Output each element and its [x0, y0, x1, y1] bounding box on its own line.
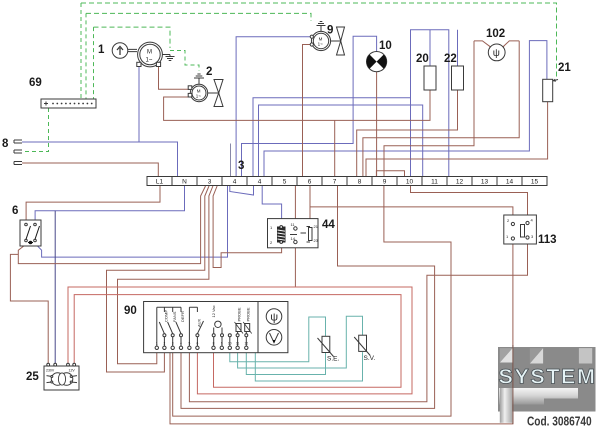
svg-text:8: 8 — [213, 342, 215, 346]
transformer 25 — [44, 363, 79, 390]
svg-text:25: 25 — [26, 371, 39, 383]
resistor 21 — [543, 79, 553, 101]
svg-text:N: N — [182, 179, 187, 186]
wire blue motor1 left terminal down to N run — [138, 67, 140, 143]
motor M1 terminals — [137, 62, 161, 66]
terminal strip 3 — [147, 177, 547, 186]
svg-text:PROBE: PROBE — [245, 307, 250, 321]
wire blue strip 4a second drop — [230, 144, 232, 177]
wire brown strip 7 loop to board90 terminal 4 — [181, 186, 435, 408]
pump flow indicator circle with arrow — [112, 43, 128, 59]
svg-text:12 Vac: 12 Vac — [211, 305, 216, 317]
resistor 21 side pin arrow — [553, 80, 558, 81]
wire brown motor1 right terminal to motor2 upper terminal — [159, 67, 190, 90]
wire navy transformer primary pin2 to N run — [54, 211, 56, 364]
probe 102 — [488, 44, 505, 61]
svg-text:12: 12 — [245, 342, 249, 346]
svg-text:DEFR: DEFR — [180, 311, 185, 322]
wire red transformer secondary to board90 terminal 7 — [74, 295, 401, 388]
svg-text:6: 6 — [12, 205, 18, 217]
svg-text:ψ: ψ — [270, 312, 278, 324]
svg-text:44: 44 — [322, 219, 335, 231]
wire brown strip L1 below to switch 6 — [26, 186, 160, 220]
wire earth green top bus 1 — [81, 3, 557, 79]
wire teal board90 terminal 9 to sensor SE top — [230, 317, 326, 362]
motor M9 terminals — [310, 35, 313, 46]
svg-text:1~: 1~ — [146, 58, 153, 64]
board 90 aux contact — [189, 307, 203, 346]
wire brown motor9 lower terminal down to strip 6 — [303, 45, 311, 177]
svg-text:6: 6 — [308, 179, 312, 186]
wire blue switch6 output to strip 4a — [38, 186, 228, 257]
wire brown motor2 lower terminal to resistor20 bottom — [164, 90, 430, 120]
motor M1 — [138, 42, 163, 67]
svg-text:21: 21 — [314, 224, 319, 229]
svg-text:9: 9 — [221, 342, 223, 346]
svg-text:ψ: ψ — [493, 48, 500, 59]
ground of motor 2 — [194, 74, 204, 84]
wire earth green drop 3 into connector 69 — [93, 27, 95, 99]
svg-text:5: 5 — [189, 342, 191, 346]
svg-text:90: 90 — [124, 305, 137, 317]
motor M2 — [190, 84, 207, 101]
svg-text:AUX: AUX — [197, 318, 202, 327]
wire brown probe102 right lead down and left to strip 9 — [363, 41, 519, 177]
wire blue strip 4b to resistor 21 top — [264, 41, 547, 177]
wire brown strip 8 loop to board90 terminal 3 — [173, 186, 451, 416]
wire teal board90 terminal 10 to sensor SV top — [238, 316, 363, 368]
wire blue strip 4b second run to cell 11 — [259, 105, 423, 177]
svg-text:1: 1 — [98, 44, 105, 56]
lamp 10 — [367, 52, 387, 72]
wire brown strip 10 over to plug113 pin4 — [411, 186, 528, 221]
wire blue plug8 top pin to strip N — [22, 142, 178, 177]
wire brown plug8 bottom pin to strip L1 — [22, 163, 158, 177]
board 90 vertical labels — [164, 305, 251, 327]
svg-text:4: 4 — [233, 179, 237, 186]
svg-text:FANS: FANS — [172, 311, 177, 322]
wire brown plug113 pin3 loop to board90 terminal 5 — [189, 240, 527, 402]
svg-text:4: 4 — [180, 342, 182, 346]
ground of motor 9 — [317, 22, 326, 32]
svg-text:7: 7 — [333, 179, 337, 186]
wire brown relay44 coil pin2 to strip 3 — [213, 186, 282, 268]
wire blue resistor20 top stub — [429, 30, 431, 66]
board 90 relay contacts comp fans defr — [157, 307, 247, 346]
svg-text:6: 6 — [197, 342, 199, 346]
board 90 psi circle — [266, 309, 282, 325]
resistor 20 — [424, 66, 436, 90]
svg-text:102: 102 — [486, 28, 505, 40]
svg-text:13: 13 — [481, 179, 489, 186]
board 90 — [144, 302, 288, 353]
wire brown switch6 branch to transformer primary pin1 — [10, 254, 48, 363]
svg-text:12: 12 — [456, 179, 464, 186]
svg-text:4: 4 — [258, 179, 262, 186]
board 90 V circle — [266, 330, 282, 346]
svg-text:15: 15 — [531, 179, 539, 186]
svg-text:14: 14 — [506, 179, 514, 186]
svg-text:69: 69 — [29, 77, 42, 89]
wire blue strip 4b below to relay44 coil pin1 — [262, 186, 281, 222]
wire brown drop from fan run to strip 7 — [334, 120, 336, 176]
svg-text:M: M — [147, 50, 152, 56]
svg-text:5: 5 — [283, 179, 287, 186]
wire brown relay44 pin14 down — [294, 248, 296, 287]
wire brown plug113 pin1 long bottom run to board90 — [170, 240, 513, 424]
motor M9 — [311, 31, 330, 50]
wire blue jumper terminals 4-4 below strip — [230, 186, 254, 195]
svg-text:3: 3 — [208, 179, 212, 186]
wire earth green drop 2 into connector 69 — [85, 13, 87, 99]
wire earth green top bus 2 to motor 9 ground — [86, 13, 311, 21]
wire teal sensor SE bottom to board90 terminal 11 — [246, 350, 325, 375]
wire brown overlay plug113 pin1 crossing logo — [512, 345, 514, 424]
wire brown resistor22 bottom to strip 8 — [357, 90, 458, 177]
svg-text:COMP: COMP — [164, 310, 169, 322]
switch 6 — [20, 220, 41, 246]
wire brown resistor21 bottom to strip 8 — [366, 102, 548, 177]
wire blue resistor22 top stub — [457, 30, 459, 66]
wire brown strip 3 to board90 terminal 2 — [118, 186, 213, 364]
SYSTEM watermark logo — [498, 347, 597, 429]
plug 113 — [504, 215, 537, 244]
wire brown jumper strip 9 to strip 10 — [376, 171, 404, 177]
wire earth green drop 1 into connector 69 — [80, 3, 82, 99]
wire blue bridge over resistors 20 22 — [411, 30, 449, 177]
svg-text:230V: 230V — [46, 369, 55, 373]
svg-text:3: 3 — [238, 160, 244, 172]
svg-text:10: 10 — [379, 40, 392, 52]
svg-text:20: 20 — [416, 53, 429, 65]
wire brown strip 3 to board90 terminal 1 — [107, 186, 210, 372]
wire earth green connector 69 to plug 8 middle pin — [22, 108, 49, 152]
probe 102 leads — [474, 41, 519, 47]
svg-text:PROBE: PROBE — [237, 307, 242, 321]
svg-text:2: 2 — [164, 342, 166, 346]
wire blue strip 4b up and over to resistor drop — [253, 98, 411, 177]
sensor SE — [318, 336, 340, 362]
svg-text:Cod. 3086740: Cod. 3086740 — [527, 414, 592, 428]
wire brown strip 5 down to relay44 pin11 — [294, 186, 296, 226]
shaft between pump and motor 1 — [128, 49, 137, 51]
svg-text:S.E.: S.E. — [327, 356, 339, 363]
wire brown probe102 left lead down and left to strip 9 — [384, 41, 474, 177]
svg-text:8: 8 — [2, 138, 9, 150]
wire blue strip N down to switch 6 — [35, 186, 184, 220]
svg-text:11: 11 — [236, 342, 240, 346]
svg-text:21: 21 — [558, 62, 571, 74]
svg-text:1: 1 — [156, 342, 158, 346]
fan blades of motor 2 — [208, 80, 223, 107]
wire brown switch6 output to strip 3 — [18, 186, 205, 264]
svg-text:8: 8 — [358, 179, 362, 186]
svg-text:1~: 1~ — [196, 94, 202, 99]
svg-text:3: 3 — [172, 342, 174, 346]
board 90 bottom terminal row — [155, 346, 248, 349]
wire brown branch to plug 113 pin2 — [310, 207, 513, 223]
wire earth green motor1 ground to motor2 ground — [170, 51, 199, 72]
connector 69 — [41, 99, 96, 108]
board 90 12Vac lamp — [214, 328, 222, 334]
motor M2 terminals — [188, 86, 192, 97]
fan blades of motor 9 — [331, 27, 345, 55]
svg-text:9: 9 — [383, 179, 387, 186]
wire brown strip 6 down to relay 44 pin21 — [309, 186, 311, 219]
wire teal sensor SV bottom return to board90 — [255, 352, 362, 381]
svg-text:L1: L1 — [156, 179, 164, 186]
svg-text:1~: 1~ — [318, 42, 324, 47]
svg-text:12V: 12V — [69, 369, 76, 373]
wire earth green top bus 3 to motor 1 ground — [94, 27, 171, 48]
svg-text:23: 23 — [314, 238, 319, 243]
wire red transformer secondary to board90 terminal 6 — [68, 287, 412, 394]
plug 8 pins — [14, 140, 22, 165]
svg-text:113: 113 — [538, 234, 557, 246]
svg-text:10: 10 — [406, 179, 414, 186]
sensor SV — [354, 335, 375, 362]
svg-text:11: 11 — [431, 179, 438, 186]
svg-text:10: 10 — [228, 342, 232, 346]
svg-text:S.V.: S.V. — [364, 355, 376, 362]
relay 44 coil — [278, 227, 286, 242]
svg-text:2: 2 — [206, 66, 212, 78]
wire blue motor9 terminal to strip 4 — [236, 37, 311, 177]
board 90 probe symbols — [235, 322, 252, 334]
relay 44 — [268, 219, 319, 248]
wire brown lamp10 bottom lead through strip 9 — [376, 72, 378, 177]
resistor 22 — [452, 66, 464, 90]
svg-text:22: 22 — [444, 53, 457, 65]
wire blue lamp10 top lead to strip 8 — [242, 36, 377, 176]
ground of motor 1 — [162, 55, 174, 61]
